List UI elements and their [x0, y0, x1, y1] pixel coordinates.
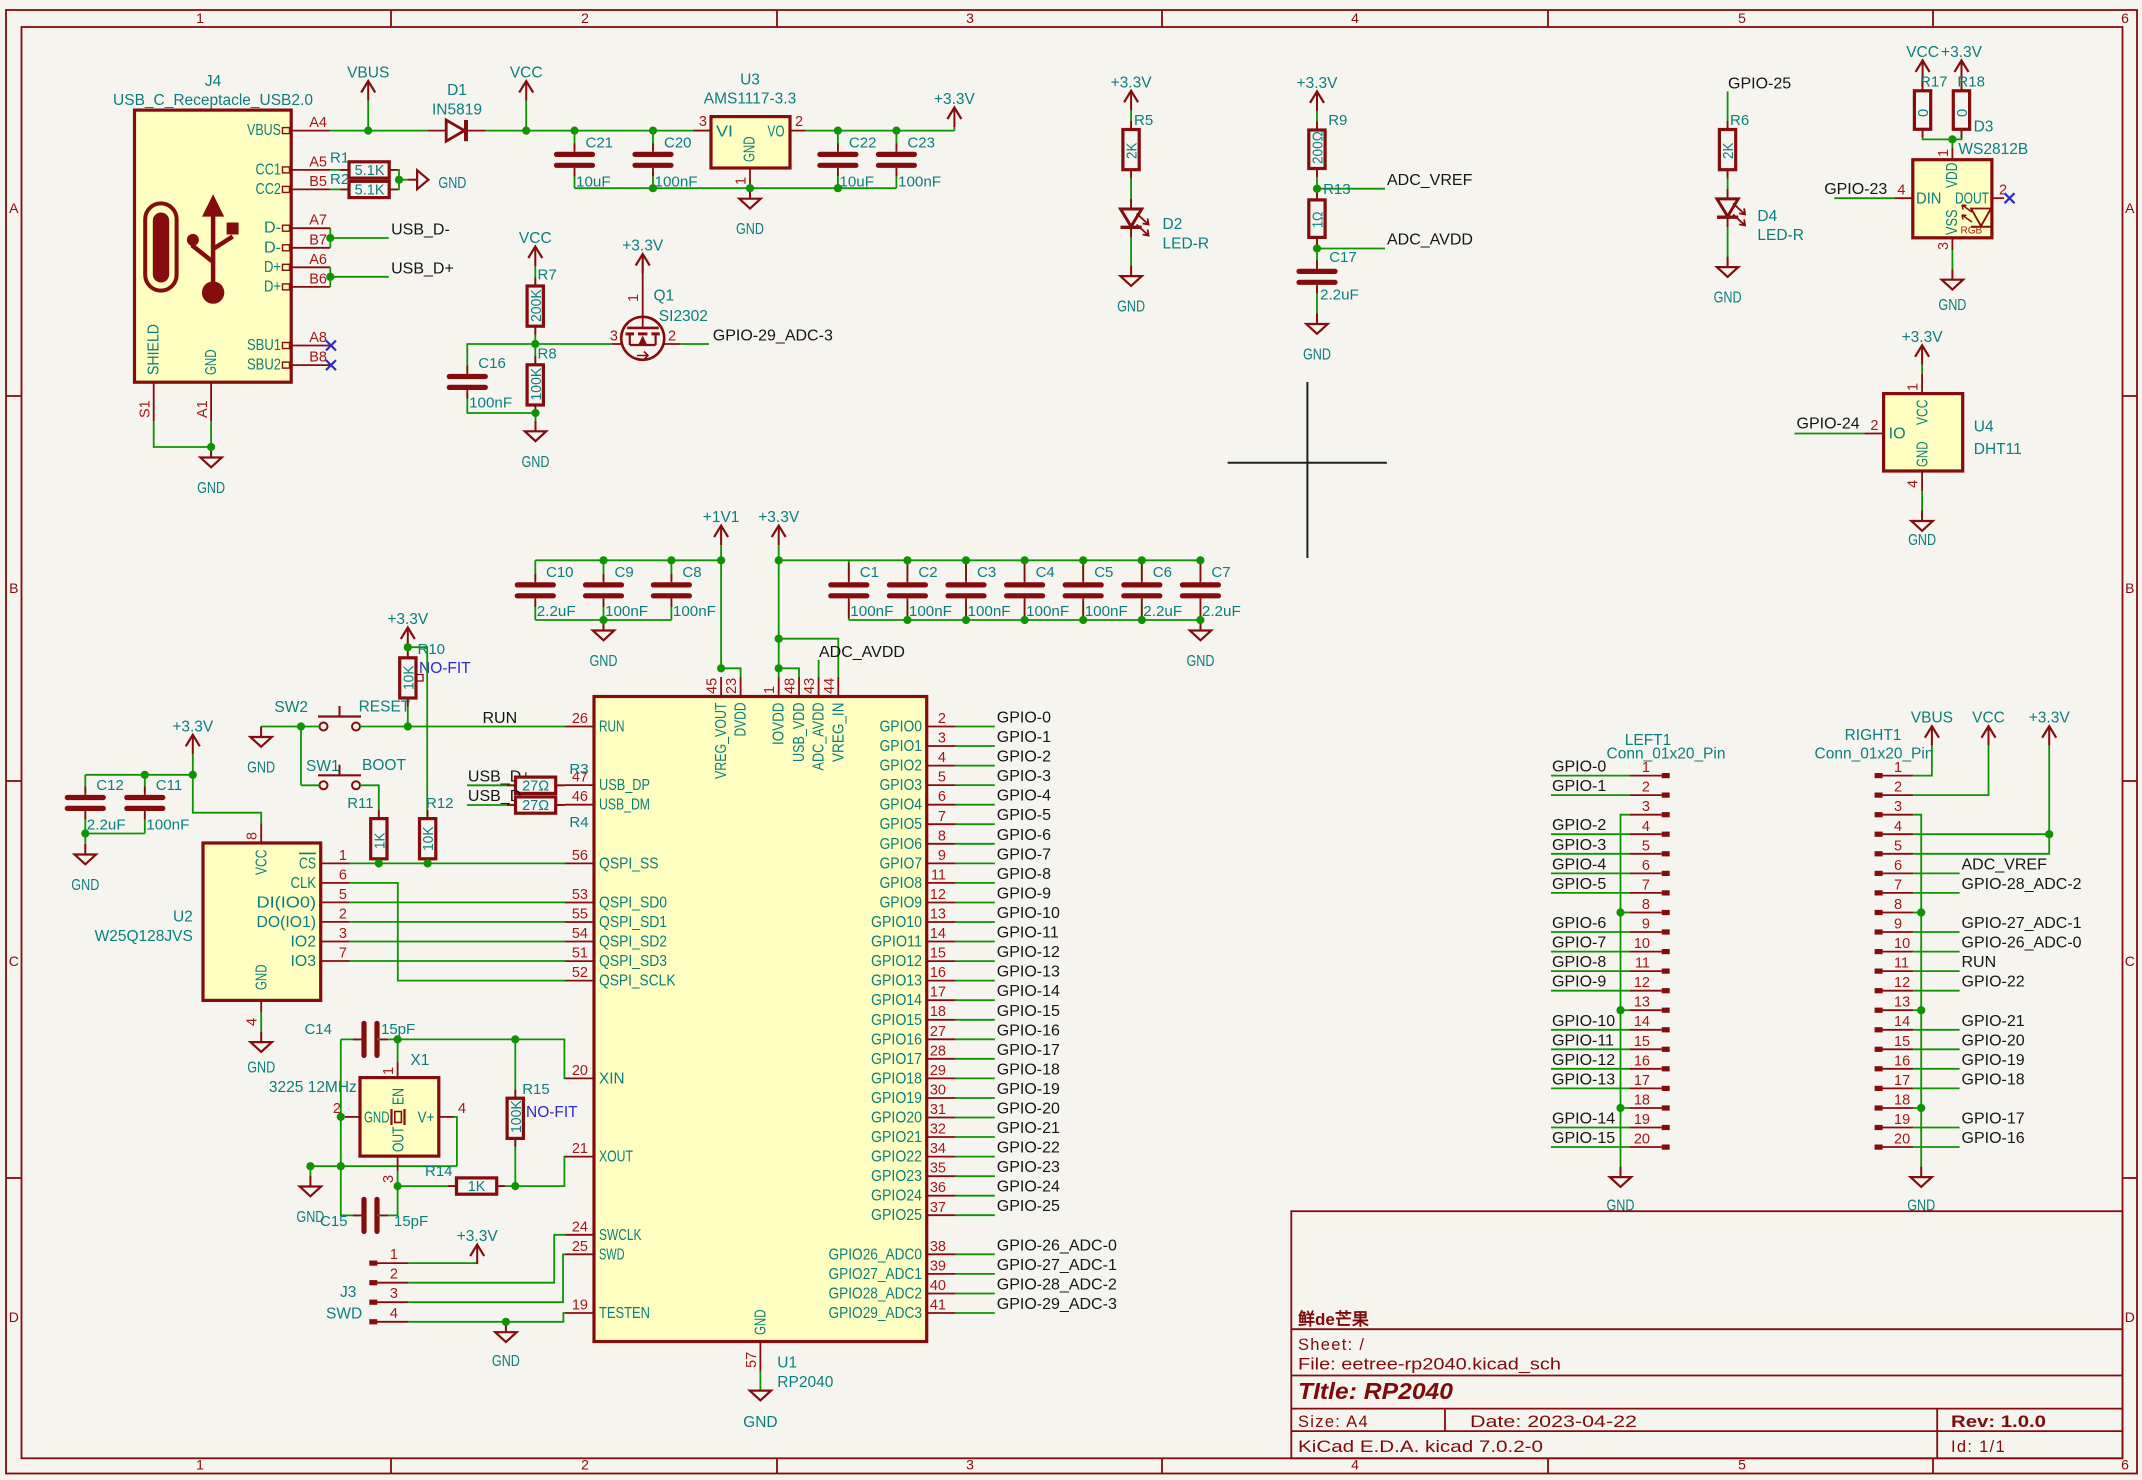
svg-text:RUN: RUN — [599, 719, 625, 736]
wire QSPI_SS net — [350, 862, 565, 864]
wire and label GPIO-8 LEFT1 pin 11 — [1551, 970, 1630, 972]
capacitor C23 100nF — [895, 131, 897, 150]
svg-text:SWD: SWD — [326, 1306, 362, 1323]
wire and label GPIO pin 30 — [956, 1097, 995, 1099]
svg-text:GND: GND — [1938, 297, 1966, 314]
wire R14 to junction — [497, 1185, 516, 1187]
power +1V1 riser — [720, 526, 722, 546]
svg-text:U1: U1 — [777, 1355, 797, 1372]
svg-text:GPIO20: GPIO20 — [871, 1110, 922, 1127]
capacitor C4 100nF — [1024, 560, 1026, 580]
U1 pin 1 IOVDD — [778, 677, 780, 697]
svg-text:GPIO1: GPIO1 — [880, 738, 923, 755]
svg-text:USB_C_Receptacle_USB2.0: USB_C_Receptacle_USB2.0 — [113, 92, 313, 109]
wire and label GPIO-10 LEFT1 pin 14 — [1551, 1029, 1630, 1031]
LED D3 WS2812B — [1913, 160, 1992, 238]
svg-text:7: 7 — [1642, 877, 1650, 893]
wire R8 bottom to ground — [535, 405, 537, 421]
svg-text:D-: D- — [264, 220, 281, 237]
svg-text:GPIO-14: GPIO-14 — [997, 983, 1060, 1000]
svg-text:GPIO-27_ADC-1: GPIO-27_ADC-1 — [997, 1257, 1117, 1274]
svg-text:鲜de芒果: 鲜de芒果 — [1298, 1309, 1369, 1329]
wire SW2 to SW1 — [300, 727, 302, 786]
wire R12 from +3.3V — [408, 647, 427, 818]
svg-text:A4: A4 — [309, 115, 327, 131]
svg-text:GPIO-28_ADC-2: GPIO-28_ADC-2 — [1962, 876, 2082, 893]
wire SW2 to RUN pin — [360, 726, 565, 728]
svg-text:ADC_VREF: ADC_VREF — [1387, 172, 1473, 189]
capacitor C2 100nF — [906, 560, 908, 580]
svg-text:+3.3V: +3.3V — [1941, 44, 1983, 61]
wire QSPI_SD2 — [350, 941, 565, 943]
svg-text:DO(IO1): DO(IO1) — [257, 914, 317, 931]
svg-text:GPIO-8: GPIO-8 — [1552, 954, 1606, 971]
wire and label GPIO pin 28 — [956, 1058, 995, 1060]
ground rail under U3 — [575, 187, 897, 189]
svg-text:54: 54 — [572, 926, 588, 942]
wire and label GPIO-6 LEFT1 pin 9 — [1551, 931, 1630, 933]
svg-text:LED-R: LED-R — [1757, 227, 1804, 244]
svg-text:R9: R9 — [1328, 112, 1347, 129]
U2 pin 4 GND — [260, 1000, 262, 1012]
wire and label GPIO-17 RIGHT1 pin 19 — [1913, 1127, 1960, 1129]
svg-text:GPIO-18: GPIO-18 — [997, 1061, 1060, 1078]
svg-text:GPIO25: GPIO25 — [871, 1207, 922, 1224]
svg-text:5: 5 — [339, 887, 347, 903]
svg-text:SW2: SW2 — [274, 699, 308, 716]
svg-text:C23: C23 — [907, 135, 935, 152]
J4 bottom pins S1 A1 — [153, 382, 155, 421]
svg-text:38: 38 — [930, 1239, 946, 1255]
svg-text:24: 24 — [572, 1219, 588, 1235]
wire and label GPIO pin 37 — [956, 1214, 995, 1216]
LED D4 LED-R — [1717, 199, 1738, 217]
svg-text:9: 9 — [1642, 917, 1650, 933]
svg-text:26: 26 — [572, 711, 588, 727]
svg-text:C10: C10 — [546, 564, 574, 581]
svg-text:5.1K: 5.1K — [355, 183, 385, 199]
svg-text:QSPI_SD3: QSPI_SD3 — [599, 953, 667, 970]
svg-text:4: 4 — [458, 1101, 466, 1117]
U4 pin 1 VCC — [1921, 365, 1923, 374]
wire to XOUT — [515, 1157, 565, 1187]
svg-text:C1: C1 — [860, 564, 879, 581]
svg-text:3: 3 — [1936, 242, 1952, 250]
svg-text:15: 15 — [930, 946, 946, 962]
svg-text:100nF: 100nF — [1085, 603, 1128, 620]
svg-text:27Ω: 27Ω — [522, 798, 549, 814]
resistor R10 10K NO-FIT — [400, 658, 416, 698]
svg-text:GPIO29_ADC3: GPIO29_ADC3 — [829, 1305, 923, 1322]
svg-text:56: 56 — [572, 848, 588, 864]
svg-text:GPIO-5: GPIO-5 — [1552, 876, 1606, 893]
svg-text:4: 4 — [245, 1018, 261, 1026]
svg-text:R6: R6 — [1730, 112, 1749, 129]
svg-text:RIGHT1: RIGHT1 — [1845, 727, 1902, 744]
wire and label GPIO pin 15 — [956, 960, 995, 962]
svg-text:VSS: VSS — [1944, 210, 1961, 236]
svg-text:GPIO-28_ADC-2: GPIO-28_ADC-2 — [997, 1277, 1117, 1294]
svg-text:IO2: IO2 — [291, 934, 317, 951]
svg-text:C16: C16 — [478, 355, 506, 372]
wire J3 pin1 to +3.3V — [408, 1262, 477, 1264]
svg-text:GPIO-8: GPIO-8 — [997, 866, 1051, 883]
wire and label GPIO pin 13 — [956, 921, 995, 923]
svg-text:GPIO7: GPIO7 — [880, 855, 923, 872]
svg-text:GPIO-15: GPIO-15 — [997, 1003, 1060, 1020]
svg-text:DOUT: DOUT — [1955, 191, 1989, 208]
svg-text:V+: V+ — [418, 1110, 435, 1127]
svg-text:+3.3V: +3.3V — [457, 1228, 499, 1245]
connector J4 USB_C_Receptacle_USB2.0 — [135, 110, 292, 382]
wire and label RUN RIGHT1 pin 11 — [1913, 970, 1960, 972]
wire D- pins to label USB_D- — [329, 228, 331, 248]
X1 pin 2 GND — [345, 1116, 360, 1118]
wire and label GPIO pin 40 — [956, 1293, 995, 1295]
svg-text:19: 19 — [1634, 1112, 1650, 1128]
wire and label GPIO-2 LEFT1 pin 4 — [1551, 833, 1630, 835]
svg-text:GPIO-4: GPIO-4 — [997, 788, 1051, 805]
wire SW1 to R11 — [360, 785, 379, 818]
svg-text:U3: U3 — [740, 72, 760, 89]
svg-text:R8: R8 — [538, 346, 557, 363]
svg-text:VBUS: VBUS — [347, 65, 389, 82]
RIGHT1 GND bus — [1913, 815, 1921, 1167]
svg-text:GPIO3: GPIO3 — [880, 777, 923, 794]
svg-text:GPIO-15: GPIO-15 — [1552, 1130, 1615, 1147]
svg-text:C9: C9 — [615, 564, 634, 581]
svg-text:C: C — [2125, 953, 2135, 969]
resistor R2 5.1K — [349, 181, 389, 197]
svg-text:GPIO12: GPIO12 — [871, 953, 922, 970]
svg-text:GPIO-23: GPIO-23 — [1824, 181, 1887, 198]
svg-text:+3.3V: +3.3V — [387, 611, 429, 628]
svg-text:RUN: RUN — [483, 710, 518, 727]
svg-text:GPIO-26_ADC-0: GPIO-26_ADC-0 — [1962, 935, 2082, 952]
svg-text:1: 1 — [1936, 149, 1952, 157]
U1 pin 45 VREG_VOUT — [720, 677, 722, 697]
svg-text:Conn_01x20_Pin: Conn_01x20_Pin — [1607, 746, 1726, 763]
svg-text:2.2uF: 2.2uF — [87, 817, 126, 834]
svg-text:GPIO-13: GPIO-13 — [997, 964, 1060, 981]
svg-text:GPIO-26_ADC-0: GPIO-26_ADC-0 — [997, 1237, 1117, 1254]
capacitor C20 100nF — [652, 131, 654, 150]
wire R1 R2 to GND — [389, 170, 399, 190]
svg-text:4: 4 — [1642, 819, 1650, 835]
svg-text:3: 3 — [339, 926, 347, 942]
RIGHT1 pin1 to VBUS — [1913, 746, 1932, 776]
svg-text:CC2: CC2 — [256, 181, 282, 198]
power +3.3V riser at U1 — [778, 526, 780, 546]
svg-text:8: 8 — [938, 828, 946, 844]
resistor R17 0 — [1914, 91, 1930, 130]
svg-text:GPIO-10: GPIO-10 — [997, 905, 1060, 922]
svg-text:GPIO2: GPIO2 — [880, 758, 923, 775]
svg-text:R2: R2 — [330, 171, 349, 188]
power +3.3V at U2 — [192, 735, 194, 755]
svg-text:C7: C7 — [1211, 564, 1230, 581]
pin stub overdraw — [341, 169, 350, 171]
svg-text:ADC_AVDD: ADC_AVDD — [811, 703, 828, 771]
svg-text:3225 12MHz: 3225 12MHz — [269, 1079, 357, 1096]
svg-text:18: 18 — [1894, 1093, 1910, 1109]
svg-text:36: 36 — [930, 1180, 946, 1196]
svg-text:A7: A7 — [309, 213, 327, 229]
svg-text:4: 4 — [1906, 480, 1922, 488]
svg-text:GPIO-0: GPIO-0 — [1552, 759, 1606, 776]
wire D+ pins to label USB_D+ — [329, 267, 331, 287]
svg-text:R15: R15 — [522, 1081, 550, 1098]
svg-text:1: 1 — [381, 1067, 397, 1075]
bypass rail +3.3V — [779, 559, 1201, 561]
X1 pin 3 OUT — [397, 1156, 399, 1171]
svg-text:QSPI_SD0: QSPI_SD0 — [599, 895, 667, 912]
wire and label GPIO-7 LEFT1 pin 10 — [1551, 951, 1630, 953]
wire and label GPIO-21 RIGHT1 pin 14 — [1913, 1029, 1960, 1031]
svg-text:1: 1 — [1894, 760, 1902, 776]
svg-text:GPIO-25: GPIO-25 — [997, 1198, 1060, 1215]
wire and label GPIO pin 14 — [956, 941, 995, 943]
svg-text:10: 10 — [1894, 936, 1910, 952]
svg-text:CC1: CC1 — [256, 161, 282, 178]
svg-text:VCC: VCC — [1915, 400, 1932, 426]
svg-text:GPIO27_ADC1: GPIO27_ADC1 — [829, 1266, 923, 1283]
svg-text:GPIO-20: GPIO-20 — [1962, 1032, 2025, 1049]
svg-text:SBU2: SBU2 — [247, 357, 281, 374]
svg-text:3: 3 — [610, 329, 618, 345]
svg-text:48: 48 — [783, 678, 799, 694]
D3 pin 3 VSS to ground — [1951, 238, 1953, 250]
svg-text:3: 3 — [390, 1286, 398, 1302]
wire QSPI_SD1 — [350, 921, 565, 923]
wire J3 pin2 to SWCLK — [408, 1235, 565, 1283]
svg-text:4: 4 — [390, 1306, 398, 1322]
svg-text:J3: J3 — [340, 1284, 356, 1301]
resistor R12 10K — [420, 819, 436, 859]
capacitor C11 100nF — [144, 775, 146, 793]
svg-text:30: 30 — [930, 1083, 946, 1099]
svg-text:100nF: 100nF — [605, 603, 648, 620]
resistor R14 1K — [398, 1185, 457, 1187]
svg-text:GPIO-27_ADC-1: GPIO-27_ADC-1 — [1962, 915, 2082, 932]
svg-text:QSPI_SD2: QSPI_SD2 — [599, 934, 667, 951]
svg-text:GPIO-17: GPIO-17 — [997, 1042, 1060, 1059]
power VCC at R7 — [534, 247, 536, 267]
svg-text:2K: 2K — [1721, 142, 1737, 159]
svg-text:2: 2 — [668, 329, 676, 345]
wire and label GPIO-9 LEFT1 pin 12 — [1551, 990, 1630, 992]
wire SHIELD and GND pins to ground — [154, 421, 211, 447]
ground below D4 — [1727, 257, 1729, 268]
svg-text:C8: C8 — [682, 564, 701, 581]
svg-text:GPIO-3: GPIO-3 — [1552, 837, 1606, 854]
svg-text:D1: D1 — [447, 82, 467, 99]
svg-text:2: 2 — [390, 1267, 398, 1283]
svg-text:9: 9 — [938, 848, 946, 864]
svg-text:USB_D+: USB_D+ — [391, 260, 454, 277]
resistor R6 2K — [1719, 130, 1735, 170]
capacitor C16 100nF — [467, 344, 535, 374]
svg-text:18: 18 — [930, 1004, 946, 1020]
RIGHT1 pin2 to VCC — [1913, 746, 1988, 795]
wire and label GPIO pin 2 — [956, 726, 995, 728]
svg-text:GPIO4: GPIO4 — [880, 797, 923, 814]
wire and label GPIO pin 41 — [956, 1312, 995, 1314]
wire and label GPIO pin 6 — [956, 804, 995, 806]
svg-text:4: 4 — [1894, 819, 1902, 835]
transistor Q1 SI2302 — [535, 343, 612, 345]
wire and label GPIO-22 RIGHT1 pin 12 — [1913, 990, 1960, 992]
wire and label GPIO pin 35 — [956, 1175, 995, 1177]
svg-text:GPIO13: GPIO13 — [871, 973, 922, 990]
U2 pin 3 IO2 — [321, 941, 350, 943]
svg-text:C17: C17 — [1329, 249, 1357, 266]
svg-text:VBUS: VBUS — [247, 122, 281, 139]
svg-text:3: 3 — [938, 731, 946, 747]
svg-text:GPIO-19: GPIO-19 — [997, 1081, 1060, 1098]
svg-text:+3.3V: +3.3V — [1111, 74, 1153, 91]
svg-text:A6: A6 — [309, 252, 327, 268]
svg-text:ADC_VREF: ADC_VREF — [1962, 856, 2048, 873]
svg-text:20: 20 — [1634, 1132, 1650, 1148]
U1 right pins GPIO — [927, 726, 956, 728]
svg-text:R11: R11 — [347, 795, 373, 812]
wire and label GPIO-1 LEFT1 pin 2 — [1551, 794, 1630, 796]
U2 pin 7 IO3 — [321, 960, 350, 962]
svg-text:19: 19 — [572, 1298, 588, 1314]
svg-text:2.2uF: 2.2uF — [1202, 603, 1241, 620]
ground rail under X1 — [310, 1165, 457, 1167]
svg-text:GPIO-11: GPIO-11 — [997, 925, 1059, 942]
svg-text:14: 14 — [1634, 1014, 1650, 1030]
svg-text:18: 18 — [1634, 1093, 1650, 1109]
svg-text:D-: D- — [264, 239, 281, 256]
wire R17 R18 to D3 VDD — [1923, 129, 1962, 139]
svg-text:2: 2 — [1870, 418, 1878, 434]
svg-text:GPIO-18: GPIO-18 — [1962, 1071, 2025, 1088]
svg-text:VDD: VDD — [1944, 163, 1961, 189]
ground rail under C10 C9 C8 — [535, 619, 671, 621]
resistor R15 100K NO-FIT — [514, 1039, 516, 1098]
wire C15 left — [341, 1166, 364, 1215]
svg-text:20: 20 — [1894, 1132, 1910, 1148]
svg-text:WS2812B: WS2812B — [1958, 141, 2028, 158]
J4 right-side pins — [291, 130, 330, 132]
svg-text:RUN: RUN — [1962, 954, 1997, 971]
svg-text:19: 19 — [1894, 1112, 1910, 1128]
svg-text:13: 13 — [1634, 995, 1650, 1011]
svg-text:XIN: XIN — [599, 1070, 625, 1087]
svg-text:7: 7 — [938, 809, 946, 825]
svg-text:GPIO17: GPIO17 — [871, 1051, 922, 1068]
svg-text:SBU1: SBU1 — [247, 337, 281, 354]
svg-text:SW1: SW1 — [306, 758, 340, 775]
svg-text:1: 1 — [339, 848, 347, 864]
svg-text:11: 11 — [1635, 956, 1650, 972]
wire and label GPIO pin 12 — [956, 902, 995, 904]
svg-text:RP2040: RP2040 — [777, 1374, 833, 1391]
svg-text:R10: R10 — [418, 641, 446, 658]
svg-text:C22: C22 — [849, 135, 877, 152]
svg-text:J4: J4 — [205, 73, 222, 90]
svg-text:6: 6 — [1894, 858, 1902, 874]
svg-text:0: 0 — [1916, 109, 1932, 117]
svg-text:B: B — [2125, 580, 2134, 596]
ground below U4 — [1921, 511, 1923, 522]
wire C14 down to ground rail — [340, 1039, 342, 1166]
svg-text:29: 29 — [930, 1063, 946, 1079]
svg-text:GPIO-9: GPIO-9 — [1552, 974, 1606, 991]
svg-text:7: 7 — [1894, 877, 1902, 893]
wire and label GPIO-20 RIGHT1 pin 15 — [1913, 1048, 1960, 1050]
svg-text:GPIO-11: GPIO-11 — [1552, 1032, 1614, 1049]
wire and label GPIO pin 34 — [956, 1156, 995, 1158]
svg-text:C6: C6 — [1153, 564, 1172, 581]
svg-text:GPIO-0: GPIO-0 — [997, 710, 1051, 727]
svg-text:2: 2 — [938, 711, 946, 727]
svg-text:7: 7 — [339, 946, 347, 962]
svg-text:GND: GND — [752, 1310, 769, 1336]
svg-text:GPIO-2: GPIO-2 — [1552, 817, 1606, 834]
crosshair marker — [1306, 382, 1308, 558]
svg-text:1K: 1K — [372, 832, 388, 849]
resistor R18 0 — [1953, 91, 1969, 130]
svg-text:USB_DM: USB_DM — [599, 797, 650, 814]
RIGHT1 pins 4 5 to +3.3V — [1913, 833, 2049, 835]
U3 pin 3 VI — [693, 130, 711, 132]
svg-text:GND: GND — [590, 653, 618, 670]
U4 pin 2 IO wire — [1864, 433, 1883, 435]
wire to XIN — [515, 1039, 565, 1078]
svg-text:GPIO-6: GPIO-6 — [1552, 915, 1606, 932]
svg-text:U4: U4 — [1974, 419, 1994, 436]
wire V+ to rail — [439, 1116, 454, 1118]
svg-text:RESET: RESET — [359, 699, 411, 716]
svg-text:16: 16 — [1634, 1053, 1650, 1069]
wire and label GPIO pin 4 — [956, 765, 995, 767]
svg-text:4: 4 — [938, 750, 946, 766]
svg-text:B6: B6 — [309, 271, 327, 287]
svg-text:52: 52 — [572, 965, 588, 981]
svg-text:35: 35 — [930, 1161, 946, 1177]
svg-text:GPIO-1: GPIO-1 — [997, 729, 1051, 746]
svg-text:1Ω: 1Ω — [1311, 211, 1327, 228]
rail to C12 C11 — [85, 774, 193, 776]
Q1 pin 2 source wire — [664, 343, 680, 345]
svg-text:GPIO19: GPIO19 — [871, 1090, 922, 1107]
svg-text:C12: C12 — [96, 777, 124, 794]
svg-text:VCC: VCC — [1972, 710, 2005, 727]
svg-text:D+: D+ — [264, 259, 281, 276]
svg-text:17: 17 — [930, 985, 946, 1001]
junction pin 48 branch — [779, 668, 799, 677]
svg-text:GND: GND — [247, 760, 275, 777]
wire and label GPIO pin 7 — [956, 823, 995, 825]
capacitor C1 100nF — [848, 560, 850, 580]
wire and label GPIO-11 LEFT1 pin 15 — [1551, 1048, 1630, 1050]
ground below C12 — [84, 834, 86, 845]
svg-text:45: 45 — [705, 678, 721, 694]
USB-C icon inside J4 — [145, 203, 176, 290]
svg-text:2: 2 — [1642, 780, 1650, 796]
U3 pin 2 VO — [790, 130, 806, 132]
svg-text:GND: GND — [522, 454, 550, 471]
wire R9 to junction ADC_VREF — [1316, 169, 1318, 200]
wire R7 to junction — [534, 326, 536, 344]
svg-text:51: 51 — [572, 946, 588, 962]
svg-text:GPIO-22: GPIO-22 — [997, 1140, 1060, 1157]
svg-text:GND: GND — [1303, 347, 1331, 364]
